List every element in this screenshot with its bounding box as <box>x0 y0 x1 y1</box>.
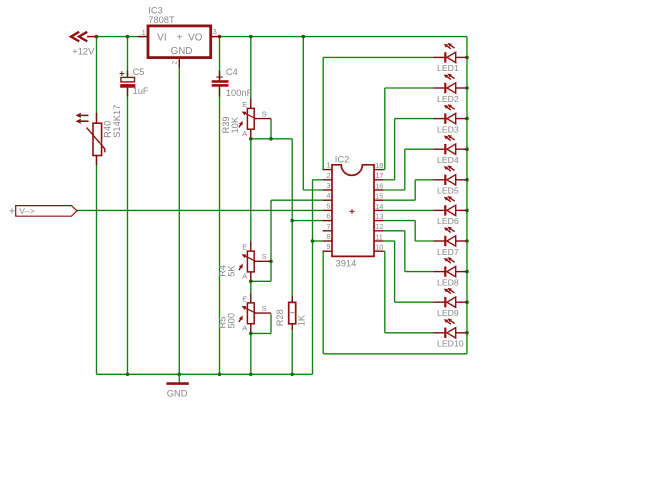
LED1 <box>434 52 468 62</box>
wire C5 column lower <box>127 84 129 374</box>
LED9 <box>434 297 468 307</box>
svg-text:LED4: LED4 <box>437 155 459 165</box>
svg-text:5: 5 <box>326 201 330 210</box>
LED8 emission arrows <box>444 257 455 263</box>
svg-text:11: 11 <box>375 232 383 241</box>
junction on +8V/+12V top rail at x=250.8 <box>249 35 253 39</box>
varistor R40 S14K17 <box>87 113 105 165</box>
svg-text:100nF: 100nF <box>226 88 253 98</box>
IC2 pin 1 stub <box>323 169 332 171</box>
svg-text:1: 1 <box>142 28 146 37</box>
LED4 emission arrows <box>444 135 455 141</box>
IC2 pin 3 stub <box>323 189 332 191</box>
LED3 <box>434 113 468 123</box>
junction on GND rail at x=179.3 <box>178 373 182 377</box>
connector pin mark <box>10 208 15 213</box>
trimmer potentiometer R39 10K <box>239 99 271 139</box>
svg-text:A: A <box>242 324 248 333</box>
supply pin stub <box>87 36 97 38</box>
wire pin 10 horizontal <box>383 250 384 252</box>
wire pin 13 horizontal <box>383 220 415 222</box>
svg-text:1uF: 1uF <box>133 86 149 96</box>
IC2 pin 6 stub <box>323 220 332 222</box>
svg-text:LED1: LED1 <box>437 63 459 73</box>
junction LED4 anode on bus <box>465 147 469 151</box>
wire LED5 riser to pin 15 <box>414 180 416 200</box>
svg-text:GND: GND <box>171 46 193 57</box>
wire LED7 drop from pin 13 <box>414 221 416 241</box>
svg-text:E: E <box>242 294 247 303</box>
LED6 <box>434 205 468 215</box>
junction on +8V/+12V top rail at x=96.5 <box>95 35 99 39</box>
IC2 pin 11 stub <box>374 240 383 242</box>
wire pin 16 stub link <box>383 189 404 191</box>
wire pin 15 stub link <box>383 199 415 201</box>
svg-text:6: 6 <box>326 212 330 221</box>
LED6 emission arrows <box>444 196 455 202</box>
junction on GND rail at x=250.8 <box>249 373 253 377</box>
svg-text:4: 4 <box>326 191 330 200</box>
IC2 pin 12 stub <box>374 230 383 232</box>
wire pin 4 horizontal <box>271 199 323 201</box>
svg-text:LED3: LED3 <box>437 124 459 134</box>
LED5 <box>434 175 468 185</box>
IC3 pin 3 stub <box>211 36 221 38</box>
wire IC3 GND pin 2 column <box>178 58 180 375</box>
svg-text:GND: GND <box>167 389 188 399</box>
svg-text:S: S <box>262 304 267 313</box>
trimmer potentiometer R4 5K <box>239 242 271 282</box>
svg-text:10: 10 <box>375 243 383 252</box>
svg-text:LED8: LED8 <box>437 277 459 287</box>
wire LED1 cathode run <box>323 56 433 58</box>
svg-text:14: 14 <box>375 202 383 211</box>
IC2 pin 2 stub <box>323 179 332 181</box>
wire LED7 horizontal <box>415 240 433 242</box>
svg-text:16: 16 <box>375 181 383 190</box>
svg-text:7808T: 7808T <box>148 15 175 25</box>
wire pin 14 to LED6 direct <box>383 209 433 211</box>
wire LED9 horizontal <box>395 301 434 303</box>
wire +8V rail: IC3 VO to top-right corner <box>211 36 467 38</box>
wire bottom route to IC2 pin 9 <box>323 353 467 355</box>
svg-text:LED5: LED5 <box>437 186 459 196</box>
junction pin 6 row <box>290 219 294 223</box>
svg-text:S: S <box>262 252 267 261</box>
svg-text:1K: 1K <box>296 314 306 326</box>
wire pin 6 horizontal <box>292 220 322 222</box>
svg-text:A: A <box>242 272 248 281</box>
IC2 pin 7 stub <box>323 230 332 232</box>
svg-text:LED7: LED7 <box>437 247 459 257</box>
svg-text:C4: C4 <box>226 67 238 77</box>
wire R39 wiper drop <box>270 118 272 138</box>
IC3 pin 1 stub <box>138 36 148 38</box>
wire pin 1 riser <box>322 57 324 169</box>
wire R39-R4-R5 divider column <box>250 37 252 375</box>
wire R40 column (+12V down to GND rail) <box>96 37 98 375</box>
svg-text:IC3: IC3 <box>148 6 162 16</box>
svg-text:VO: VO <box>188 32 203 43</box>
wire pin 3 horizontal <box>303 189 322 191</box>
LED10 <box>434 328 468 338</box>
wire R4 A junction horizontal <box>251 280 271 282</box>
junction LED8 anode on bus <box>465 270 469 274</box>
IC2 pin 8 stub <box>323 240 332 242</box>
junction on GND rail at x=292.2 <box>290 373 294 377</box>
svg-text:S14K17: S14K17 <box>112 105 122 138</box>
junction on +8V/+12V top rail at x=303.3 <box>302 35 306 39</box>
svg-text:R28: R28 <box>275 309 285 326</box>
wire GND rail <box>97 373 313 375</box>
wire LED10 horizontal <box>385 332 434 334</box>
svg-text:17: 17 <box>375 171 383 180</box>
wire pin 2 / pin 8 column to GND rail <box>312 180 314 374</box>
junction R4 A <box>249 280 253 284</box>
LED7 <box>434 236 468 246</box>
svg-text:C5: C5 <box>133 67 145 77</box>
junction pin 8 row <box>311 239 315 243</box>
svg-text:+: + <box>177 32 183 43</box>
svg-text:3: 3 <box>326 181 330 190</box>
svg-text:500: 500 <box>227 313 237 329</box>
wire pin 8 horizontal <box>313 240 323 242</box>
LED5 emission arrows <box>444 165 455 171</box>
capacitor C4 100nF <box>212 71 229 97</box>
svg-text:V-->: V--> <box>19 207 34 216</box>
LED9 emission arrows <box>444 288 455 294</box>
IC2 pin 17 stub <box>374 179 383 181</box>
svg-text:8: 8 <box>326 232 330 241</box>
IC2 pin 9 stub <box>323 250 332 252</box>
wire R5 wiper drop <box>270 314 272 334</box>
junction LED1 anode on bus <box>465 56 469 60</box>
junction LED7 anode on bus <box>465 239 469 243</box>
IC2 pin 14 stub <box>374 209 383 211</box>
IC2 pin 10 stub <box>374 250 383 252</box>
junction on GND rail at x=219.5 <box>218 373 222 377</box>
svg-text:u: u <box>99 139 103 146</box>
wire LED2 riser to pin 18 <box>384 88 386 170</box>
wire pin 2 horizontal <box>313 179 323 181</box>
svg-text:12: 12 <box>375 222 383 231</box>
svg-text:1: 1 <box>326 161 330 170</box>
junction on +8V/+12V top rail at x=127.5 <box>126 35 130 39</box>
junction LED5 anode on bus <box>465 178 469 182</box>
svg-text:LED9: LED9 <box>437 308 459 318</box>
wire LED10 drop from pin 10 <box>384 251 386 333</box>
wire R5 A junction horizontal <box>251 332 271 334</box>
svg-text:A: A <box>242 129 248 138</box>
wire pin 11 horizontal <box>383 240 394 242</box>
LED10 emission arrows <box>444 318 455 324</box>
capacitor C5 1uF (polarized) <box>120 71 136 97</box>
wire LED9 drop from pin 11 <box>394 241 396 302</box>
LED8 <box>434 266 468 276</box>
svg-text:13: 13 <box>375 212 383 221</box>
IC2 pin 15 stub <box>374 199 383 201</box>
wire +8V drop to pin 3 <box>302 37 304 190</box>
IC3 pin 2 stub <box>178 58 180 68</box>
svg-text:LED2: LED2 <box>437 94 459 104</box>
junction R39 A/S <box>249 137 253 141</box>
LED2 emission arrows <box>444 74 455 80</box>
wire LED4 riser to pin 16 <box>404 149 406 190</box>
svg-text:+12V: +12V <box>72 46 95 56</box>
junction LED2 anode on bus <box>465 86 469 90</box>
trimmer potentiometer R5 500 <box>239 293 271 333</box>
junction LED9 anode on bus <box>465 300 469 304</box>
junction LED10 anode on bus <box>465 331 469 335</box>
R40 emission arrows <box>76 113 89 124</box>
IC2 pin 16 stub <box>374 189 383 191</box>
svg-text:3914: 3914 <box>336 258 357 269</box>
svg-text:3: 3 <box>213 27 217 36</box>
IC2 pin 13 stub <box>374 220 383 222</box>
svg-text:18: 18 <box>375 161 383 170</box>
svg-text:LED6: LED6 <box>437 216 459 226</box>
wire pin 9 drop <box>322 251 324 354</box>
IC2 pin 5 stub <box>323 209 332 211</box>
op-amp-style box IC3 7808T regulator <box>148 26 211 58</box>
junction on +8V/+12V top rail at x=219.5 <box>218 35 222 39</box>
junction R39 wiper tie <box>269 137 273 141</box>
LED7 emission arrows <box>444 227 455 233</box>
wire LED4 horizontal <box>405 148 434 150</box>
wire C4 column upper <box>219 37 221 82</box>
wire pin 6 / R28 column <box>291 139 293 374</box>
svg-text:15: 15 <box>375 192 383 201</box>
wire LED8 horizontal <box>405 271 434 273</box>
resistor R28 1K <box>289 296 296 330</box>
svg-text:LED10: LED10 <box>437 339 464 349</box>
svg-text:5K: 5K <box>227 265 237 277</box>
IC2 plus mark <box>350 209 355 214</box>
wire LED5 horizontal <box>415 179 433 181</box>
wire C4 column lower <box>219 84 221 374</box>
svg-text:IC2: IC2 <box>335 153 350 164</box>
wire pin 4 drop to R4 wiper/A <box>270 200 272 281</box>
junction LED6 anode on bus <box>465 209 469 213</box>
svg-text:VI: VI <box>157 32 166 43</box>
LED4 <box>434 144 468 154</box>
op-amp U/IC2 3914 DIP-18 body <box>332 165 374 257</box>
svg-text:2: 2 <box>171 61 178 65</box>
svg-text:9: 9 <box>326 242 330 251</box>
IC2 pin 18 stub <box>374 169 383 171</box>
junction R4 wiper tie <box>269 260 273 264</box>
wire C5 column upper <box>127 37 129 82</box>
wire LED2 horizontal <box>385 87 434 89</box>
junction R5 A <box>249 332 253 336</box>
wire LED8 drop from pin 12 <box>404 231 406 272</box>
wire pin 18 stub link <box>383 169 384 171</box>
svg-text:S: S <box>262 109 267 118</box>
wire right anode bus vertical <box>466 37 468 354</box>
ground symbol GND <box>166 374 188 383</box>
wire +12V net: supply arrow to IC3 VI <box>87 36 148 38</box>
wire pin 17 stub link <box>383 179 394 181</box>
junction on GND rail at x=127.5 <box>126 373 130 377</box>
svg-text:7: 7 <box>326 222 330 231</box>
supply symbol +12V double arrow <box>71 32 87 42</box>
IC2 pin 4 stub <box>323 199 332 201</box>
LED1 emission arrows <box>444 43 455 49</box>
wire pin 12 horizontal <box>383 230 404 232</box>
wire LED3 horizontal <box>395 118 434 120</box>
svg-text:E: E <box>242 100 247 109</box>
junction LED3 anode on bus <box>465 117 469 121</box>
LED3 emission arrows <box>444 104 455 110</box>
LED2 <box>434 83 468 93</box>
svg-text:10K: 10K <box>230 116 240 133</box>
svg-text:2: 2 <box>326 171 330 180</box>
wire R39 S/A junction to pin 6 column <box>251 138 292 140</box>
svg-text:E: E <box>242 243 247 252</box>
wire LED3 riser to pin 17 <box>394 119 396 180</box>
